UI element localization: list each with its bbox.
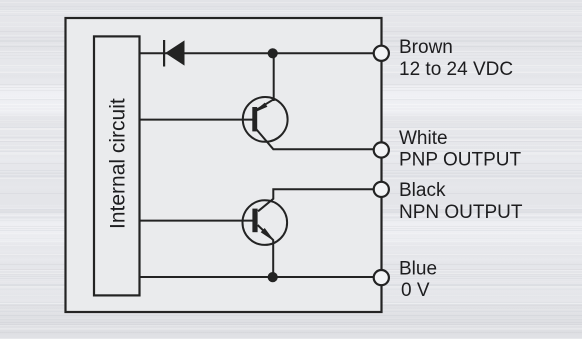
transistor Q2 base bar xyxy=(252,209,257,233)
transistor Q1 PNP circle xyxy=(243,97,288,142)
wire bottom rail (0 V) xyxy=(140,276,382,278)
terminal Blue xyxy=(374,270,389,285)
terminal Brown xyxy=(374,46,389,61)
svg-text:PNP OUTPUT: PNP OUTPUT xyxy=(399,149,522,170)
transistor Q1 base bar xyxy=(252,107,257,131)
transistor Q2 NPN circle xyxy=(242,200,287,245)
wire NPN base xyxy=(140,220,254,222)
wire PNP collector to White terminal xyxy=(256,129,381,149)
wire PNP emitter vertical xyxy=(273,53,275,101)
wire PNP base xyxy=(140,119,253,121)
junction dot bottom rail xyxy=(268,272,278,282)
svg-text:Internal circuit: Internal circuit xyxy=(107,98,130,229)
transistor Q1 emitter arrowhead (PNP, points to base) xyxy=(256,103,268,112)
wire NPN collector to Black terminal xyxy=(258,189,381,211)
internal circuit box xyxy=(94,36,140,295)
svg-text:White: White xyxy=(399,128,448,149)
outer circuit box xyxy=(66,18,382,312)
svg-text:0 V: 0 V xyxy=(401,280,430,301)
diode D1 triangle xyxy=(165,40,184,65)
wire top rail (Brown) xyxy=(140,52,382,54)
junction dot top rail xyxy=(268,48,278,58)
svg-text:12 to 24 VDC: 12 to 24 VDC xyxy=(399,59,513,80)
transistor Q2 emitter arrowhead (NPN, points outward) xyxy=(261,228,272,239)
svg-text:Brown: Brown xyxy=(399,37,453,58)
svg-text:Black: Black xyxy=(399,180,446,201)
svg-text:NPN OUTPUT: NPN OUTPUT xyxy=(399,202,523,223)
svg-text:Blue: Blue xyxy=(399,258,437,279)
terminal Black xyxy=(374,182,389,197)
wire PNP emitter diagonal xyxy=(256,99,274,110)
diode D1 cathode bar xyxy=(163,40,165,67)
terminal White xyxy=(374,142,389,157)
wire NPN emitter to bottom rail xyxy=(258,225,274,277)
